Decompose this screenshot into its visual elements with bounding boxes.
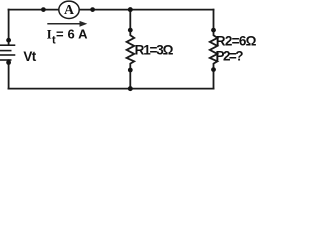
node junction R1 bottom: [128, 86, 133, 91]
node R2 top terminal: [211, 28, 216, 33]
wire top (Vt+ to top-right corner): [9, 9, 214, 11]
current arrow It: [47, 21, 87, 27]
svg-text:I: I: [47, 27, 52, 42]
node junction R1 top: [128, 7, 133, 12]
ammeter U1 circle: [59, 1, 79, 18]
svg-text:P2=?: P2=?: [216, 48, 244, 63]
wire left lower (battery to bottom-left corner): [8, 60, 10, 88]
node battery top terminal: [6, 38, 11, 43]
svg-text:A: A: [64, 2, 74, 17]
wire bottom: [9, 88, 214, 90]
node ammeter left terminal: [41, 7, 46, 12]
node R1 top terminal: [128, 28, 133, 33]
wire right branch with resistor R2 zigzag: [210, 10, 218, 89]
wire left upper (Vt top to battery): [8, 10, 10, 45]
wire middle branch with resistor R1 zigzag: [127, 10, 135, 89]
node battery bottom terminal: [6, 60, 11, 65]
svg-text:R1=3Ω: R1=3Ω: [135, 43, 174, 58]
svg-text:Vt: Vt: [23, 49, 36, 64]
node ammeter right terminal: [90, 7, 95, 12]
svg-text:= 6 A: = 6 A: [56, 27, 88, 42]
node R1 bottom terminal: [128, 68, 133, 73]
node R2 bottom terminal: [211, 67, 216, 72]
battery Vt plates: [0, 45, 14, 60]
svg-text:R2=6Ω: R2=6Ω: [216, 33, 257, 48]
